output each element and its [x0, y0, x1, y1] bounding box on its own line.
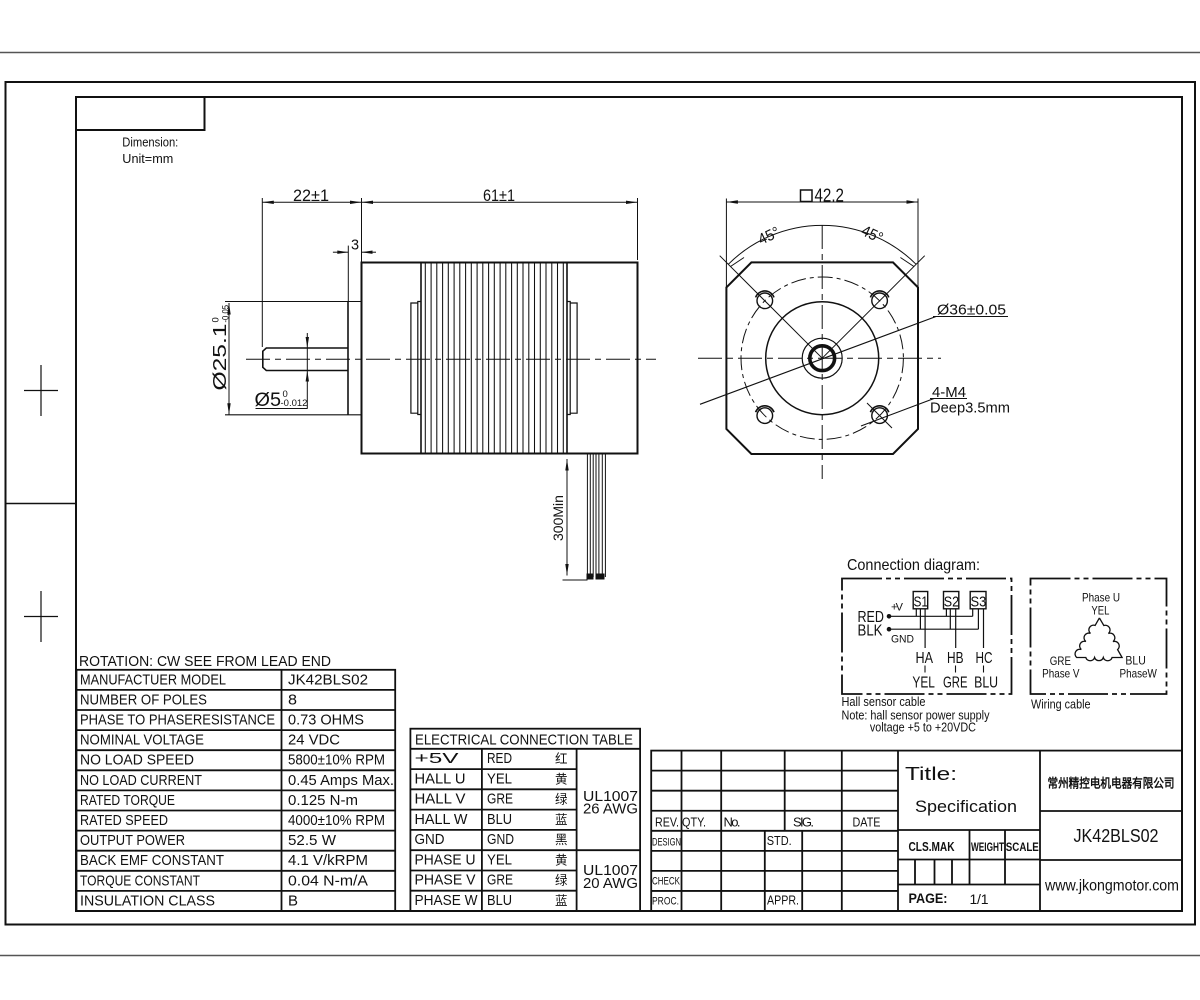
S3 pins [973, 609, 984, 648]
svg-text:YEL: YEL [1091, 604, 1109, 618]
top rule [0, 52, 1200, 54]
svg-text:DATE: DATE [853, 815, 881, 830]
svg-text:YEL: YEL [912, 675, 935, 692]
svg-text:ROTATION: CW SEE FROM LEAD END: ROTATION: CW SEE FROM LEAD END [79, 654, 331, 670]
svg-text:www.jkongmotor.com: www.jkongmotor.com [1044, 878, 1179, 895]
svg-text:绿: 绿 [555, 873, 568, 888]
svg-text:红: 红 [555, 751, 568, 766]
registration cross 2 [24, 591, 58, 642]
svg-text:Deep3.5mm: Deep3.5mm [930, 401, 1010, 417]
vertical centerline [821, 225, 823, 479]
rear cap step bracket [567, 302, 570, 415]
svg-text:PHASE V: PHASE V [415, 873, 476, 889]
motor body outline (side view) [362, 263, 638, 454]
svg-text:PAGE:: PAGE: [909, 891, 948, 906]
svg-text:-0.012: -0.012 [281, 398, 308, 409]
pilot boss [347, 302, 349, 415]
45 degree arc [728, 225, 916, 264]
svg-text:QTY.: QTY. [682, 815, 706, 830]
svg-text:PHASE TO PHASERESISTANCE: PHASE TO PHASERESISTANCE [80, 713, 275, 729]
stator stack right boundary [566, 263, 568, 454]
dimension 3 [333, 198, 376, 301]
svg-text:22±1: 22±1 [293, 187, 329, 205]
svg-text:24 VDC: 24 VDC [288, 733, 340, 749]
mounting hole top-left [757, 293, 773, 309]
svg-text:GND: GND [487, 832, 514, 848]
svg-text:Wiring cable: Wiring cable [1031, 697, 1091, 712]
svg-text:HALL W: HALL W [415, 812, 468, 828]
svg-text:45°: 45° [755, 224, 782, 249]
svg-text:S1: S1 [914, 595, 929, 611]
svg-text:ELECTRICAL CONNECTION TABLE: ELECTRICAL CONNECTION TABLE [415, 733, 633, 749]
pilot circle [766, 302, 879, 415]
svg-text:20 AWG: 20 AWG [583, 876, 638, 892]
GND rail [889, 628, 978, 630]
svg-text:4-M4: 4-M4 [932, 385, 966, 401]
svg-text:GRE: GRE [487, 792, 513, 808]
dimension 22±1 [262, 198, 361, 347]
electrical connection table grid [410, 729, 640, 911]
top-left title strip box [76, 97, 205, 130]
svg-text:WEIGHT: WEIGHT [971, 840, 1004, 854]
svg-text:PHASE W: PHASE W [415, 893, 478, 909]
dimension 61±1 [362, 198, 638, 260]
svg-text:STD.: STD. [767, 833, 792, 848]
flange square with chamfers (front view) [726, 262, 918, 454]
svg-text:26 AWG: 26 AWG [583, 802, 638, 818]
svg-text:PhaseW: PhaseW [1120, 667, 1158, 681]
svg-text:OUTPUT POWER: OUTPUT POWER [80, 833, 185, 849]
svg-text:NOMINAL VOLTAGE: NOMINAL VOLTAGE [80, 733, 204, 749]
svg-text:NUMBER OF POLES: NUMBER OF POLES [80, 692, 207, 708]
left margin divider [6, 503, 77, 505]
svg-text:INSULATION CLASS: INSULATION CLASS [80, 893, 215, 909]
svg-text:PROC.: PROC. [652, 896, 679, 908]
svg-text:CHECK: CHECK [652, 876, 680, 888]
mounting hole top-right [872, 293, 888, 309]
stator lamination hatch [425, 263, 563, 454]
title block grid [651, 751, 1182, 911]
wiring cable box (dash-dot) [1031, 579, 1167, 695]
dimension 300Min [563, 459, 588, 580]
svg-text:4.1 V/kRPM: 4.1 V/kRPM [288, 853, 368, 869]
bearing boss circle [802, 338, 842, 378]
svg-text:JK42BLS02: JK42BLS02 [1074, 826, 1159, 846]
svg-text:APPR.: APPR. [767, 893, 799, 908]
svg-text:42.2: 42.2 [815, 185, 845, 205]
svg-text:SCALE: SCALE [1006, 840, 1039, 854]
svg-text:PHASE U: PHASE U [415, 853, 476, 869]
svg-text:BLU: BLU [974, 675, 998, 692]
svg-text:61±1: 61±1 [483, 187, 515, 205]
svg-text:Specification: Specification [915, 798, 1017, 816]
+V rail [889, 615, 973, 617]
svg-text:3: 3 [351, 237, 359, 253]
horizontal centerline [698, 357, 941, 359]
svg-text:BLU: BLU [1125, 654, 1145, 668]
svg-text:GND: GND [415, 832, 445, 848]
S2 pins [946, 609, 955, 648]
svg-text:MANUFACTUER MODEL: MANUFACTUER MODEL [80, 672, 226, 688]
svg-text:HB: HB [947, 650, 964, 667]
svg-text:Dimension:: Dimension: [122, 135, 178, 150]
svg-text:黄: 黄 [555, 772, 568, 786]
svg-text:RATED SPEED: RATED SPEED [80, 813, 168, 829]
svg-text:45°: 45° [858, 222, 885, 247]
dimension Ø25.1 [227, 303, 230, 415]
svg-text:Unit=mm: Unit=mm [122, 151, 173, 166]
svg-text:0.45 Amps Max.: 0.45 Amps Max. [288, 773, 394, 789]
bolt circle (dashed) [741, 277, 903, 439]
mounting hole bottom-right [872, 408, 888, 424]
front cap step bracket [418, 302, 421, 415]
svg-text:SIG.: SIG. [793, 815, 814, 830]
svg-text:Phase U: Phase U [1082, 591, 1120, 605]
diagonal to upper-right hole [822, 256, 925, 359]
svg-text:+V: +V [891, 602, 904, 614]
svg-text:4000±10% RPM: 4000±10% RPM [288, 813, 385, 829]
svg-text:300Min: 300Min [550, 495, 566, 541]
svg-text:BLK: BLK [858, 623, 884, 640]
stator stack left boundary [420, 263, 422, 454]
inner frame [76, 97, 1182, 911]
svg-text:HALL V: HALL V [415, 792, 466, 808]
dimension Ø5 [256, 333, 309, 409]
svg-text:蓝: 蓝 [555, 813, 568, 827]
svg-text:DESIGN: DESIGN [652, 837, 681, 849]
hall sensor S2 [944, 592, 959, 609]
diagonal to upper-left hole [720, 256, 823, 359]
svg-text:GRE: GRE [943, 675, 968, 692]
svg-text:Ø5: Ø5 [255, 390, 282, 411]
svg-text:No.: No. [724, 815, 741, 830]
svg-text:HC: HC [976, 650, 993, 667]
svg-text:Phase V: Phase V [1042, 667, 1079, 681]
svg-text:+5V: +5V [415, 751, 460, 767]
leader Ø36 [700, 317, 936, 405]
svg-text:NO LOAD CURRENT: NO LOAD CURRENT [80, 773, 202, 789]
svg-text:Ø25.1: Ø25.1 [209, 324, 230, 391]
lead wires [587, 455, 605, 578]
svg-text:NO LOAD SPEED: NO LOAD SPEED [80, 753, 194, 769]
svg-text:8: 8 [288, 692, 297, 708]
leader 4-M4 [861, 399, 934, 427]
svg-text:Title:: Title: [905, 764, 957, 784]
wire end ferrules [587, 574, 594, 580]
svg-text:BACK EMF CONSTANT: BACK EMF CONSTANT [80, 853, 224, 869]
hall sensor box (dash-dot) [842, 579, 1012, 695]
svg-text:TORQUE CONSTANT: TORQUE CONSTANT [80, 873, 200, 889]
side view centerline [246, 358, 656, 360]
bottom rule [0, 955, 1200, 957]
dimension note [122, 135, 178, 167]
svg-text:REV.: REV. [655, 815, 679, 830]
arc end arrowheads [731, 258, 745, 267]
svg-text:Ø36±0.05: Ø36±0.05 [937, 301, 1006, 318]
svg-text:JK42BLS02: JK42BLS02 [288, 672, 368, 688]
hall sensor S3 [970, 592, 986, 609]
winding triangle [1075, 618, 1122, 661]
svg-text:RATED TORQUE: RATED TORQUE [80, 793, 175, 809]
dimension square 42.2 [726, 199, 918, 289]
hall sensor S1 [913, 592, 928, 609]
shaft circle [810, 346, 835, 371]
svg-text:GRE: GRE [487, 873, 513, 889]
registration cross 1 [24, 365, 58, 416]
svg-text:YEL: YEL [487, 771, 512, 787]
shaft [263, 348, 348, 371]
svg-text:1/1: 1/1 [970, 891, 989, 907]
svg-text:GND: GND [891, 634, 914, 646]
svg-text:绿: 绿 [555, 792, 568, 807]
svg-text:CLS.MAK: CLS.MAK [909, 839, 955, 854]
svg-text:常州精控电机电器有限公司: 常州精控电机电器有限公司 [1048, 776, 1175, 791]
svg-text:voltage +5 to +20VDC: voltage +5 to +20VDC [870, 721, 976, 735]
svg-text:0.73 OHMS: 0.73 OHMS [288, 713, 364, 729]
svg-text:S2: S2 [944, 595, 959, 611]
svg-text:YEL: YEL [487, 853, 512, 869]
svg-text:RED: RED [487, 751, 512, 767]
svg-text:Hall sensor cable: Hall sensor cable [842, 694, 926, 709]
svg-text:Connection diagram:: Connection diagram: [847, 557, 980, 574]
svg-text:0.125 N-m: 0.125 N-m [288, 793, 358, 809]
svg-text:HALL U: HALL U [415, 771, 466, 787]
svg-text:B: B [288, 893, 298, 909]
svg-text:52.5 W: 52.5 W [288, 833, 336, 849]
svg-text:黄: 黄 [555, 854, 568, 868]
svg-text:黑: 黑 [555, 833, 568, 847]
svg-text:BLU: BLU [487, 812, 512, 828]
svg-text:S3: S3 [971, 595, 987, 611]
specification table grid [77, 670, 396, 911]
svg-text:蓝: 蓝 [555, 894, 568, 908]
S1 pins [916, 609, 925, 648]
mounting hole bottom-left [757, 408, 773, 424]
svg-text:HA: HA [916, 650, 934, 667]
svg-text:-0.05: -0.05 [221, 305, 232, 323]
svg-text:5800±10% RPM: 5800±10% RPM [288, 753, 385, 769]
svg-text:BLU: BLU [487, 893, 512, 909]
output dashes [924, 666, 926, 673]
svg-text:0.04 N-m/A: 0.04 N-m/A [288, 873, 368, 889]
